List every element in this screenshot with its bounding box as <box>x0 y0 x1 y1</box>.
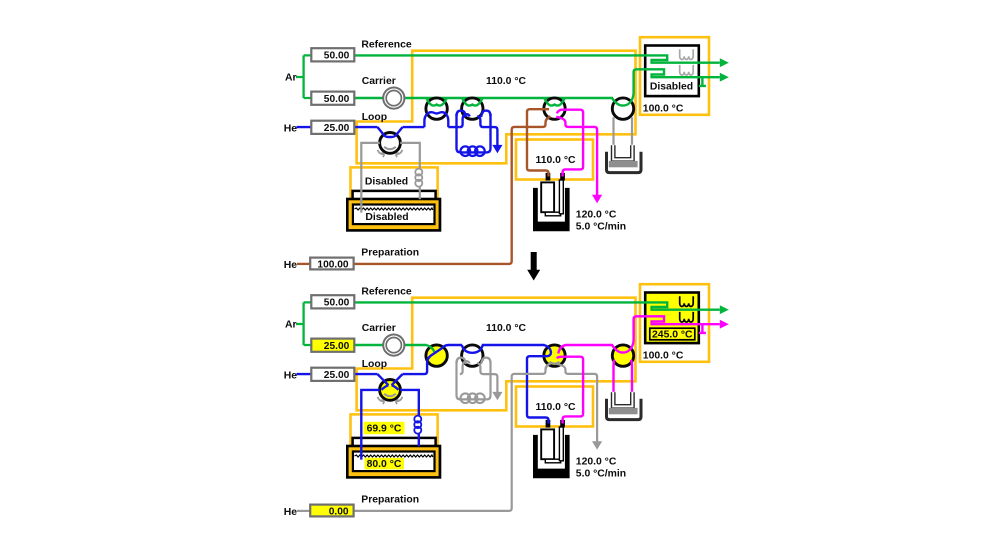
detector filament 2 <box>680 65 694 75</box>
svg-text:Disabled: Disabled <box>365 176 408 187</box>
label vessel 80.0 C <box>365 458 405 470</box>
sample loop plumbing at valve V2 <box>460 114 470 127</box>
column oven boundary <box>357 51 636 164</box>
svg-text:110.0 °C: 110.0 °C <box>486 76 526 87</box>
injector capillary <box>559 427 563 461</box>
gray vent arrow <box>477 363 497 392</box>
sampler lid block <box>353 438 436 469</box>
valve V3 <box>544 98 565 119</box>
valve V3 idle port arc <box>550 362 560 364</box>
detector oven boundary <box>640 37 709 115</box>
pressure regulator <box>383 335 404 356</box>
preparation line (gray 0 flow) <box>354 363 551 511</box>
sampler vessel outer <box>347 199 440 230</box>
svg-text:Ar: Ar <box>285 73 297 84</box>
He line to valve V1 <box>403 345 463 374</box>
TCD cell shadow <box>609 408 638 414</box>
loop valve smile <box>384 147 396 149</box>
svg-text:Carrier: Carrier <box>362 76 396 87</box>
flow box loop 25.00 <box>311 121 354 134</box>
injector heater block <box>533 188 570 231</box>
svg-text:100.00: 100.00 <box>317 259 348 270</box>
detector vent tee <box>699 324 706 333</box>
valve V1 bump <box>424 112 448 127</box>
svg-text:50.00: 50.00 <box>324 298 350 309</box>
reference gas line <box>354 302 720 309</box>
injector vial <box>541 182 554 212</box>
preparation line (brown) <box>354 116 551 264</box>
detector filament 1 <box>680 49 694 59</box>
TCD cell tubes <box>613 392 632 406</box>
flow box carrier 50.00 <box>311 92 354 105</box>
valve V3 preparation spur (gray) <box>546 363 551 369</box>
svg-text:25.00: 25.00 <box>324 123 350 134</box>
injector foot <box>545 212 560 216</box>
TCD cell shadow <box>609 161 638 167</box>
flow box preparation 100.00 <box>310 258 353 270</box>
svg-text:5.0 °C/min: 5.0 °C/min <box>576 222 626 233</box>
loop valve dip <box>378 127 403 137</box>
detector outlet arrow 2 <box>720 320 729 329</box>
loop valve smile <box>384 394 396 396</box>
injector vial <box>541 429 554 459</box>
injector heater block <box>533 435 570 478</box>
svg-text:69.9 °C: 69.9 °C <box>367 423 402 434</box>
svg-text:Loop: Loop <box>362 112 387 123</box>
svg-text:Disabled: Disabled <box>365 212 408 223</box>
gray loop plumbing at valve V2 <box>460 361 470 374</box>
detector filament 2 <box>680 312 694 322</box>
main line over valve V2 (blue dip) <box>462 345 545 353</box>
svg-text:Disabled: Disabled <box>650 81 693 92</box>
svg-text:110.0 °C: 110.0 °C <box>486 323 526 334</box>
sampler vessel inner <box>353 205 435 225</box>
svg-text:Preparation: Preparation <box>361 494 419 505</box>
injector pin right <box>560 173 565 181</box>
svg-text:Loop: Loop <box>362 359 387 370</box>
svg-text:245.0 °C: 245.0 °C <box>652 330 693 341</box>
svg-text:He: He <box>284 260 298 271</box>
column to detector (magenta) <box>566 316 720 352</box>
flow box reference 50.00 <box>311 295 354 308</box>
He preparation stub <box>297 510 310 512</box>
injection oven boundary <box>516 140 593 180</box>
flow box carrier 25.00 <box>311 339 354 352</box>
svg-text:Reference: Reference <box>361 40 411 51</box>
TCD cell tubes <box>613 145 632 159</box>
injector capillary <box>559 180 563 214</box>
svg-text:Reference: Reference <box>361 287 411 298</box>
svg-text:25.00: 25.00 <box>324 370 350 381</box>
svg-text:Carrier: Carrier <box>362 323 396 334</box>
injector pin left <box>546 420 551 428</box>
sampler vessel inner <box>353 452 435 472</box>
Ar supply tree <box>296 55 311 98</box>
detector filament 1 <box>680 296 694 306</box>
valve V3 <box>544 345 565 366</box>
svg-text:Preparation: Preparation <box>361 247 419 258</box>
valve V1 <box>426 98 447 119</box>
loop valve cross <box>378 374 403 390</box>
label sampler oven 69.9 C <box>364 422 405 434</box>
injection oven boundary <box>516 387 593 427</box>
gray sampler lines <box>361 143 420 213</box>
svg-text:He: He <box>284 370 298 381</box>
detector vent tee <box>699 77 706 86</box>
valve V3 to injector (brown) <box>527 109 549 176</box>
reference gas line <box>354 55 720 62</box>
svg-text:0.00: 0.00 <box>329 506 349 517</box>
valve V1 <box>426 345 447 366</box>
detector oven boundary <box>640 284 709 362</box>
reference outlet arrow <box>720 305 729 314</box>
loop valve rotation arrows <box>378 397 385 404</box>
loop sampling valve <box>380 133 401 154</box>
svg-text:100.0 °C: 100.0 °C <box>643 104 684 115</box>
valve V3 hook to injector (blue) <box>527 345 551 424</box>
He loop line <box>297 126 460 128</box>
TCD cell feed lines (gray) <box>614 117 633 147</box>
He preparation stub <box>297 263 310 265</box>
reference outlet arrow <box>720 58 729 67</box>
svg-text:80.0 °C: 80.0 °C <box>367 459 402 470</box>
valve V4 <box>612 98 633 119</box>
injector to valve V3 (magenta) <box>557 357 584 424</box>
TCD cell feed lines (magenta) <box>614 360 633 394</box>
valve V2 <box>462 98 483 119</box>
loop sampling valve <box>380 380 401 401</box>
loop valve rotation arrows <box>378 150 385 157</box>
sampler vessel yellow band <box>351 449 437 474</box>
liquid level wavy line <box>355 208 433 210</box>
svg-text:100.0 °C: 100.0 °C <box>643 351 684 362</box>
svg-text:5.0 °C/min: 5.0 °C/min <box>576 469 626 480</box>
TCD cell cup <box>607 399 642 420</box>
label detector setpoint 245.0 C <box>650 328 695 340</box>
liquid level wavy line <box>355 455 433 457</box>
svg-text:120.0 °C: 120.0 °C <box>576 209 617 220</box>
sampler oven boundary <box>351 167 438 204</box>
transition arrow <box>527 252 540 281</box>
valve V4 <box>612 345 633 366</box>
column oven boundary <box>357 298 636 411</box>
svg-text:He: He <box>284 507 298 518</box>
sampler vessel yellow band <box>351 202 437 227</box>
valve V3 outlet (magenta) <box>557 110 583 177</box>
valve dips (green) <box>426 98 446 106</box>
blue sampler lines <box>361 390 419 460</box>
flow box reference 50.00 <box>311 48 354 61</box>
flow box preparation 0.00 <box>310 505 353 517</box>
svg-text:50.00: 50.00 <box>324 51 350 62</box>
split vent (magenta) <box>556 117 597 195</box>
split vent line (gray, no flow) <box>556 364 597 442</box>
carrier line (green) <box>354 344 427 346</box>
pressure regulator <box>383 88 404 109</box>
carrier end hook in valve V1 <box>426 345 434 352</box>
svg-text:50.00: 50.00 <box>324 94 350 105</box>
svg-text:Ar: Ar <box>285 320 297 331</box>
sampler lid block <box>353 191 436 222</box>
detector outlet arrow 2 <box>720 73 729 82</box>
svg-text:120.0 °C: 120.0 °C <box>576 456 617 467</box>
Ar supply tree <box>296 302 311 345</box>
injector pin left <box>546 173 551 181</box>
injector foot <box>545 459 560 463</box>
sampler vessel outer <box>347 446 440 477</box>
He loop line <box>297 373 378 375</box>
flow box loop 25.00 <box>311 368 354 381</box>
svg-text:110.0 °C: 110.0 °C <box>536 155 576 166</box>
TCD detector block <box>645 293 699 344</box>
valve V2 <box>462 345 483 366</box>
TCD cell cup <box>607 152 642 173</box>
valve V3 outlet hook (magenta) <box>558 345 566 354</box>
svg-text:110.0 °C: 110.0 °C <box>536 402 576 413</box>
sampler oven boundary <box>351 414 438 451</box>
carrier line (green) <box>354 97 613 99</box>
svg-text:25.00: 25.00 <box>324 341 350 352</box>
column line to detector <box>612 69 720 105</box>
loop vent line and arrow <box>477 116 497 145</box>
svg-text:He: He <box>284 123 298 134</box>
TCD detector block <box>645 46 699 97</box>
injector pin right <box>560 420 565 428</box>
